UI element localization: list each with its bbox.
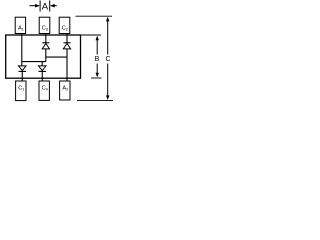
extension line pin-bottom level (77, 100, 113, 102)
pin C4 (bottom 2) (39, 81, 49, 100)
extension line body-top level (81, 34, 101, 36)
svg-text:C: C (105, 56, 110, 63)
pin A1 (top 1) (15, 17, 25, 33)
dimension B lower arrow (96, 64, 99, 78)
dimension C lower arrow (106, 64, 109, 101)
body (6, 35, 81, 78)
dimension A right extension bar (49, 1, 51, 12)
svg-text:A: A (42, 1, 49, 12)
anode rail upper (46, 56, 67, 58)
dimension A right arrow (50, 4, 57, 8)
top diode TD1 (up) (42, 34, 49, 58)
diode D1 (down) (19, 66, 27, 81)
extension line body-bottom level (91, 77, 102, 79)
dimension A left arrow (30, 4, 40, 8)
dimension A left extension bar (39, 1, 41, 12)
extension line pin-top level (76, 15, 113, 17)
pin C2 (top 3) (59, 17, 70, 33)
riser joining rails (45, 57, 47, 62)
dimension C upper arrow (106, 17, 109, 55)
svg-text:B: B (95, 56, 100, 63)
diode D2 (down) (39, 62, 47, 81)
top diode TD2 (up) (63, 34, 70, 82)
dimension B upper arrow (96, 36, 99, 55)
pin C1 (bottom 1) (16, 81, 26, 101)
wire A1 pin to lower rail and diode D1 (21, 34, 23, 67)
pin A2 (bottom 3) (60, 81, 70, 100)
anode rail lower (22, 61, 46, 63)
pin C3 (top 2) (39, 17, 50, 33)
